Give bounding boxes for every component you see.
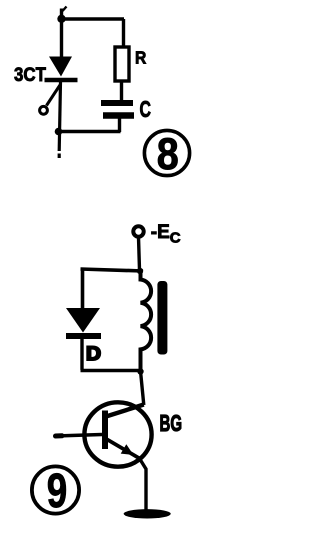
wire: left anode wire (top lead with start tick) — [62, 7, 67, 59]
resistor R — [115, 47, 129, 81]
wire: capacitor bottom lead — [118, 118, 121, 132]
transistor BG — [84, 402, 151, 466]
inductor coil (winding) — [141, 269, 152, 372]
capacitor C — [101, 103, 134, 116]
node: top junction dot — [57, 15, 65, 23]
label figure number 8 — [144, 130, 189, 179]
wire: left branch down to diode — [81, 268, 85, 310]
label figure number 9 — [32, 465, 79, 518]
svg-text:C: C — [140, 96, 152, 122]
wire: top horizontal of loop — [81, 269, 144, 271]
wire: terminal down lead — [139, 237, 140, 270]
wire: base lead — [56, 435, 103, 437]
thyristor 3CT — [40, 57, 78, 115]
inductor core bar — [157, 281, 167, 355]
wire: diode bottom lead — [80, 336, 83, 370]
svg-text:-EC: -EC — [151, 222, 181, 247]
wire: left cathode wire down (ragged end) — [59, 82, 60, 158]
wire: emitter to ground — [140, 459, 147, 512]
node: coil top junction — [137, 268, 143, 274]
diode D — [66, 308, 101, 336]
svg-text:D: D — [86, 344, 101, 365]
svg-text:9: 9 — [47, 465, 68, 518]
ground — [124, 509, 171, 518]
node: bottom junction dot — [55, 128, 63, 136]
svg-text:3CT: 3CT — [14, 64, 46, 86]
svg-text:BG: BG — [160, 410, 183, 436]
svg-text:8: 8 — [157, 130, 179, 179]
wire: bottom horizontal — [58, 130, 121, 134]
wire: right vertical to resistor — [122, 19, 125, 47]
wire: coil bottom to collector — [141, 371, 144, 405]
svg-text:R: R — [135, 48, 147, 68]
wire: top horizontal — [62, 17, 125, 21]
terminal -Ec — [133, 226, 143, 236]
wire: resistor to capacitor — [120, 82, 123, 101]
node: coil bottom junction — [137, 368, 143, 374]
wire: bottom horizontal of loop — [81, 369, 142, 373]
